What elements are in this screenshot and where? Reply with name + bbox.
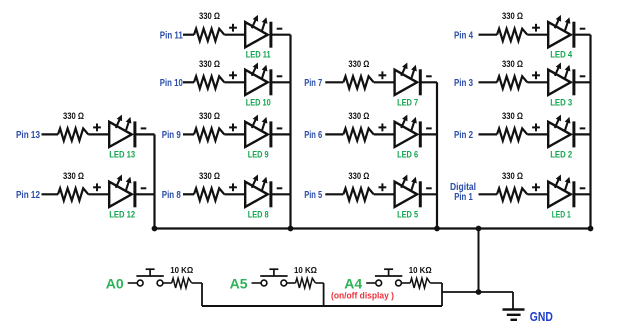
svg-text:Pin 1: Pin 1 bbox=[454, 192, 473, 203]
svg-text:LED 11: LED 11 bbox=[246, 50, 272, 61]
svg-text:LED 7: LED 7 bbox=[397, 97, 418, 108]
svg-text:330 Ω: 330 Ω bbox=[199, 59, 220, 69]
svg-text:Pin 10: Pin 10 bbox=[160, 78, 183, 89]
svg-text:A5: A5 bbox=[230, 275, 248, 291]
svg-text:330 Ω: 330 Ω bbox=[502, 171, 523, 181]
svg-text:Pin 4: Pin 4 bbox=[454, 30, 473, 41]
svg-text:LED 10: LED 10 bbox=[246, 97, 271, 108]
svg-text:LED 12: LED 12 bbox=[109, 209, 135, 220]
svg-text:Pin 6: Pin 6 bbox=[304, 130, 322, 141]
svg-text:LED 5: LED 5 bbox=[397, 209, 419, 220]
svg-text:330 Ω: 330 Ω bbox=[63, 171, 84, 181]
svg-text:LED 3: LED 3 bbox=[550, 97, 572, 108]
svg-text:10 KΩ: 10 KΩ bbox=[294, 265, 317, 275]
svg-text:LED 13: LED 13 bbox=[109, 149, 135, 160]
svg-text:330 Ω: 330 Ω bbox=[348, 59, 369, 69]
svg-text:Pin 11: Pin 11 bbox=[160, 30, 183, 41]
svg-text:Pin 5: Pin 5 bbox=[304, 190, 322, 201]
svg-text:LED 6: LED 6 bbox=[397, 149, 418, 160]
svg-text:330 Ω: 330 Ω bbox=[502, 111, 523, 121]
svg-text:LED 2: LED 2 bbox=[550, 149, 572, 160]
svg-text:Pin 12: Pin 12 bbox=[16, 190, 40, 201]
svg-text:330 Ω: 330 Ω bbox=[502, 59, 523, 69]
svg-text:Pin 7: Pin 7 bbox=[304, 78, 322, 89]
svg-text:330 Ω: 330 Ω bbox=[348, 111, 369, 121]
svg-text:Pin 8: Pin 8 bbox=[162, 190, 181, 201]
svg-text:Pin 9: Pin 9 bbox=[162, 130, 181, 141]
svg-text:(on/off display ): (on/off display ) bbox=[331, 291, 394, 301]
svg-text:GND: GND bbox=[530, 309, 553, 324]
svg-text:330 Ω: 330 Ω bbox=[502, 11, 523, 21]
svg-text:330 Ω: 330 Ω bbox=[63, 111, 84, 121]
svg-text:LED 9: LED 9 bbox=[248, 149, 269, 160]
svg-text:10 KΩ: 10 KΩ bbox=[170, 265, 193, 275]
svg-text:330 Ω: 330 Ω bbox=[199, 11, 220, 21]
svg-text:LED 4: LED 4 bbox=[550, 50, 573, 61]
svg-text:330 Ω: 330 Ω bbox=[199, 111, 220, 121]
svg-text:A0: A0 bbox=[106, 275, 124, 291]
svg-text:330 Ω: 330 Ω bbox=[199, 171, 220, 181]
svg-text:Pin 2: Pin 2 bbox=[454, 130, 473, 141]
svg-text:Pin 3: Pin 3 bbox=[454, 78, 473, 89]
svg-text:LED 8: LED 8 bbox=[248, 209, 269, 220]
svg-text:330 Ω: 330 Ω bbox=[348, 171, 369, 181]
svg-text:10 KΩ: 10 KΩ bbox=[409, 265, 432, 275]
svg-text:Pin 13: Pin 13 bbox=[16, 130, 40, 141]
svg-text:LED 1: LED 1 bbox=[552, 209, 571, 220]
svg-text:A4: A4 bbox=[344, 275, 362, 291]
